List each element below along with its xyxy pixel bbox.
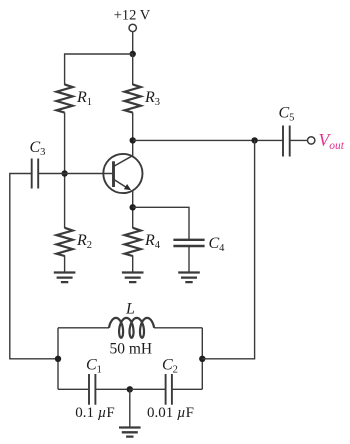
- svg-text:C1: C1: [86, 357, 102, 376]
- wire emitter down to R4: [132, 191, 134, 228]
- capacitor C4: [173, 240, 204, 246]
- transistor Q1: [103, 154, 142, 193]
- svg-text:C5: C5: [279, 105, 295, 124]
- inductor L: [109, 318, 154, 338]
- wire collector node to C5: [133, 139, 283, 141]
- svg-text:C4: C4: [209, 235, 226, 254]
- wire C2 to tank right rail: [172, 388, 202, 390]
- svg-text:0.01 µF: 0.01 µF: [147, 405, 194, 421]
- wire C4 to ground: [188, 246, 190, 272]
- node collector junction: [130, 137, 136, 143]
- svg-text:R2: R2: [76, 232, 92, 251]
- wire R3 top lead: [132, 54, 134, 85]
- svg-text:R3: R3: [144, 89, 160, 108]
- resistor R4: [125, 228, 141, 256]
- wire center node to ground: [129, 389, 131, 426]
- wire C3 left down to tank left node: [10, 174, 58, 359]
- svg-text:+12 V: +12 V: [114, 8, 151, 24]
- wire tank bottom rail left segment: [58, 388, 89, 390]
- node base junction: [61, 170, 67, 176]
- capacitor C5: [283, 126, 290, 157]
- ground bottom: [119, 428, 141, 437]
- wire base: [38, 173, 113, 175]
- wire R2 to ground: [64, 255, 66, 271]
- svg-text:C3: C3: [30, 139, 46, 158]
- node tank left junction: [55, 356, 61, 362]
- wire C5 to output terminal: [290, 139, 308, 141]
- svg-text:0.1 µF: 0.1 µF: [75, 405, 115, 421]
- ground R4: [122, 273, 144, 283]
- wire tank top rail right segment: [154, 327, 202, 329]
- node bottom center junction: [127, 386, 133, 392]
- wire C1 to center node: [95, 388, 129, 390]
- wire emitter node to C4: [133, 207, 189, 239]
- output terminal circle: [308, 137, 315, 144]
- node emitter junction: [130, 204, 136, 210]
- svg-text:R1: R1: [76, 89, 92, 108]
- capacitor C2: [166, 374, 172, 405]
- wire supply to top junction: [132, 32, 134, 54]
- wire R3 to collector junction and transistor: [132, 112, 134, 156]
- wire feedback right from C5 node down to tank: [202, 140, 254, 358]
- node top junction: [130, 51, 136, 57]
- svg-text:R4: R4: [144, 232, 161, 251]
- svg-text:50 mH: 50 mH: [109, 341, 152, 358]
- wire tank right rail: [201, 328, 203, 390]
- ground R2: [54, 273, 76, 283]
- +12 V supply terminal: [129, 24, 136, 31]
- wire R4 to ground: [132, 255, 134, 271]
- svg-text:L: L: [125, 301, 135, 318]
- svg-text:Vout: Vout: [319, 130, 345, 152]
- resistor R1: [57, 84, 73, 112]
- resistor R2: [57, 228, 73, 256]
- ground C4: [178, 273, 200, 283]
- node tank right junction: [199, 356, 205, 362]
- capacitor C1: [89, 374, 95, 405]
- svg-text:C2: C2: [162, 357, 178, 376]
- wire center node to C2: [130, 388, 166, 390]
- wire R1 bottom through base node down to R2: [64, 112, 66, 228]
- node C5 branch junction: [251, 137, 257, 143]
- capacitor C3: [32, 159, 39, 189]
- wire top rail to R1: [65, 54, 133, 85]
- wire tank left rail: [57, 328, 59, 390]
- wire tank top rail left segment: [58, 327, 109, 329]
- resistor R3: [125, 84, 141, 112]
